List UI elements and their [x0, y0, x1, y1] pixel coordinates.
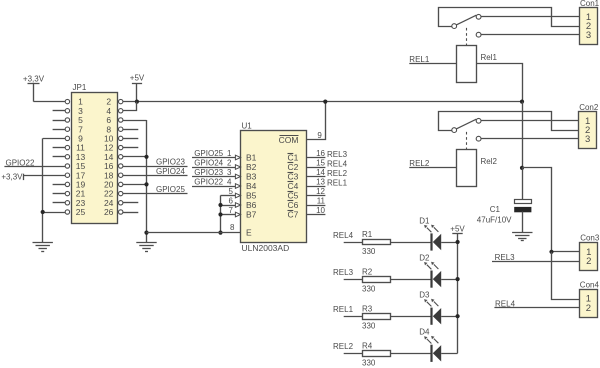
relay coil Rel1	[457, 46, 477, 83]
svg-text:15: 15	[316, 159, 325, 168]
connector JP1 body	[72, 93, 118, 224]
switch NC contact Rel1	[476, 14, 481, 19]
D2 label	[419, 254, 430, 263]
wire stub JP1 pin 7	[53, 129, 66, 131]
U1 enable label E	[246, 228, 252, 238]
wire D4 to +5V rail	[441, 353, 457, 355]
wire E pin 8	[147, 223, 241, 232]
relay coil Rel2	[457, 150, 477, 187]
net label GPIO24 / wire U1 pin 2	[192, 158, 241, 169]
svg-text:GPIO25: GPIO25	[156, 185, 185, 194]
wire REL3 to R2	[344, 279, 363, 281]
svg-text:9: 9	[317, 131, 322, 140]
net label REL3 / wire to Con3 pin2	[492, 253, 580, 262]
junction LED rail row 2	[456, 277, 460, 281]
svg-text:D1: D1	[419, 216, 430, 225]
wire REL1 to R3	[344, 316, 363, 318]
U1 input labels B1-B7	[246, 153, 257, 220]
R1 label	[362, 230, 373, 239]
switch NO contact Rel2	[476, 136, 481, 141]
actuation dashed link Rel1	[466, 28, 468, 46]
LED D1	[424, 225, 441, 251]
wire stub JP1 pin 3	[53, 110, 66, 112]
wire stub JP1 pin 13	[53, 156, 66, 158]
net label REL2 row 4	[333, 342, 354, 351]
svg-text:Rel2: Rel2	[481, 157, 498, 166]
svg-text:330: 330	[362, 359, 376, 368]
ground right of JP1	[136, 243, 156, 252]
wire U1 output pin 15 net REL4	[307, 159, 348, 169]
svg-text:6: 6	[229, 196, 234, 205]
wire stub JP1 pin 26	[123, 212, 138, 214]
wire D2 to +5V rail	[441, 279, 457, 281]
wire C1 to ground	[522, 212, 524, 233]
wire stub JP1 pin 19	[53, 184, 66, 186]
wire JP1 pin6 to ground rail	[123, 120, 147, 122]
junction LED rail row 1	[456, 240, 460, 244]
svg-text:REL1: REL1	[409, 55, 430, 64]
actuation dashed link Rel2	[466, 132, 468, 150]
svg-text:2: 2	[586, 256, 591, 267]
svg-text:REL3: REL3	[327, 150, 348, 159]
svg-text:5: 5	[229, 187, 234, 196]
wire stub JP1 pin 5	[53, 120, 66, 122]
wire +5V rail	[123, 101, 522, 103]
R4 value 330	[362, 359, 376, 368]
R3 value 330	[362, 321, 376, 330]
junction Rel2 coil node	[520, 166, 524, 170]
svg-text:3: 3	[586, 30, 591, 41]
wire Rel2 coil to +5V rail	[522, 102, 524, 168]
net label GPIO23 / wire pin16	[123, 158, 188, 167]
junction ground rail to E wire	[144, 231, 148, 235]
Con2 label	[579, 103, 599, 112]
svg-text:C6: C6	[288, 200, 299, 210]
wire stub JP1 pin 21	[53, 193, 66, 195]
svg-text:D2: D2	[419, 254, 430, 263]
R3 label	[362, 304, 373, 313]
switch common contact Rel1	[452, 24, 457, 29]
wire Rel1 common to Con1 pin 2	[439, 8, 580, 27]
power +5V symbol	[130, 74, 145, 102]
wire REL4 to R1	[344, 242, 363, 244]
wire U1 pin6	[221, 196, 241, 207]
wire stub JP1 pin 11	[53, 147, 66, 149]
svg-text:GPIO23: GPIO23	[156, 158, 185, 167]
R2 label	[362, 267, 373, 276]
connector Con4 body	[580, 290, 598, 318]
Con3 pin numbers	[586, 247, 591, 267]
wire NO contact to Con2 pin 3	[481, 138, 579, 140]
svg-text:3: 3	[585, 134, 590, 145]
svg-text:B6: B6	[246, 200, 257, 210]
wire R4 to D4	[390, 353, 430, 355]
connector Con1 body	[580, 8, 598, 45]
svg-text:25: 25	[76, 207, 86, 217]
junction COM to +5V rail	[323, 100, 327, 104]
net label REL3 row 2	[333, 268, 354, 277]
svg-text:U1: U1	[242, 122, 253, 131]
Con1 pin numbers	[586, 12, 591, 41]
svg-text:12: 12	[316, 187, 325, 196]
capacitor C1 top plate	[515, 200, 532, 204]
wire U1 pin7	[221, 206, 241, 217]
wire U1 pin5	[221, 187, 241, 198]
Rel1 name label	[481, 53, 498, 62]
net label REL4 row 1	[333, 231, 354, 240]
junction LED rail row 3	[456, 314, 460, 318]
svg-text:C2: C2	[288, 162, 299, 172]
svg-text:B5: B5	[246, 191, 257, 201]
svg-text:330: 330	[362, 247, 376, 256]
wire JP1 pin1 to +3,3V	[34, 101, 66, 103]
wire R3 to D3	[390, 316, 430, 318]
Con1 label	[580, 0, 600, 8]
junction pin25 ground	[41, 210, 45, 214]
switch armature Rel2	[456, 119, 476, 129]
svg-text:Con4: Con4	[580, 281, 600, 290]
switch NC contact Rel2	[476, 118, 481, 123]
svg-text:330: 330	[362, 321, 376, 330]
net label GPIO25 / wire U1 pin 1	[192, 149, 241, 160]
wire JP1 pin14 to ground rail	[123, 156, 147, 158]
svg-text:REL1: REL1	[333, 305, 354, 314]
connector Con3 body	[580, 243, 598, 271]
wire Rel1 coil to +5V rail	[476, 64, 522, 102]
net label GPIO23 / wire U1 pin 3	[192, 168, 241, 179]
wire JP1 pin20 to ground rail	[123, 184, 147, 186]
svg-text:7: 7	[229, 206, 234, 215]
svg-text:D3: D3	[419, 291, 430, 300]
svg-text:C4: C4	[288, 181, 299, 191]
wire branch to Con4 pin1	[552, 252, 580, 300]
svg-text:B3: B3	[246, 172, 257, 182]
svg-text:REL4: REL4	[327, 159, 348, 168]
switch common contact Rel2	[452, 128, 457, 133]
LED D3	[424, 299, 441, 325]
Rel2 name label	[481, 157, 498, 166]
Con2 pin numbers	[585, 116, 590, 145]
U1 value ULN2003AD	[242, 243, 290, 253]
R4 label	[362, 342, 373, 351]
svg-text:+5V: +5V	[450, 225, 465, 234]
svg-text:+5V: +5V	[130, 74, 145, 83]
net label REL1 / wire to coil	[409, 55, 457, 64]
wire +5V LED rail	[457, 242, 459, 353]
wire REL2 to R4	[344, 353, 363, 355]
svg-text:8: 8	[230, 223, 235, 232]
wire U1 output pin 10	[307, 206, 326, 215]
svg-text:REL3: REL3	[333, 268, 354, 277]
wire U1 output pin 11	[307, 197, 326, 206]
op-amp driver U1 body	[241, 131, 307, 243]
wire NC contact to Con2 pin 1	[481, 120, 579, 122]
ground left	[33, 243, 53, 252]
svg-text:2: 2	[227, 158, 232, 167]
wire unused-input bus	[220, 196, 222, 233]
svg-text:C1: C1	[490, 205, 501, 214]
svg-text:R2: R2	[362, 267, 373, 276]
svg-text:3: 3	[227, 168, 232, 177]
switch armature Rel1	[456, 15, 476, 25]
resistor R4	[363, 351, 391, 357]
Con4 label	[580, 281, 600, 290]
JP1 label	[73, 83, 87, 92]
LED D4	[424, 336, 441, 362]
junction Rel1 coil rail	[520, 100, 524, 104]
junction pin2 +5V	[135, 100, 139, 104]
net label REL4 / wire to Con4 pin2	[494, 300, 579, 309]
D1 label	[419, 216, 430, 225]
wire U1 output pin 14 net REL2	[307, 168, 348, 178]
Con3 label	[580, 234, 600, 243]
U1 pin COM label	[279, 135, 299, 145]
wire stub JP1 pin 12	[123, 147, 138, 149]
junction Con3 branch	[549, 250, 553, 254]
svg-text:Con1: Con1	[580, 0, 600, 8]
svg-text:Rel1: Rel1	[481, 53, 498, 62]
D4 label	[419, 328, 430, 337]
svg-text:REL2: REL2	[333, 342, 354, 351]
svg-text:B1: B1	[246, 153, 257, 163]
power +3,3V symbol	[23, 74, 45, 101]
wire Rel2 common to Con2 pin 2	[439, 112, 579, 131]
wire U1 output pin 13 net REL1	[307, 178, 348, 188]
JP1 pin numbers	[76, 97, 114, 217]
junction pin7 bus	[218, 212, 222, 216]
svg-text:E: E	[246, 228, 252, 238]
svg-text:COM: COM	[279, 135, 299, 145]
svg-text:47uF/10V: 47uF/10V	[477, 215, 512, 224]
wire R2 to D2	[390, 279, 430, 281]
net label GPIO25 / wire pin22	[123, 185, 188, 194]
resistor R3	[363, 314, 391, 320]
svg-text:+3,3V: +3,3V	[1, 173, 23, 182]
wire U1 output pin 12	[307, 187, 326, 196]
wire stub JP1 pin 10	[123, 138, 138, 140]
svg-text:REL2: REL2	[327, 169, 348, 178]
junction pin20 ground	[144, 182, 148, 186]
svg-text:13: 13	[316, 178, 325, 187]
connector Con2 body	[579, 112, 597, 149]
wire U1 output pin 16 net REL3	[307, 149, 348, 159]
wire stub JP1 pin 23	[53, 202, 66, 204]
JP1 pin circles	[65, 99, 123, 214]
wire stub JP1 pin 8	[123, 129, 138, 131]
power +5V symbol LED rail	[450, 225, 465, 242]
capacitor C1 bottom plate	[514, 207, 531, 212]
svg-text:GPIO24: GPIO24	[194, 158, 223, 167]
LED D2	[424, 262, 441, 288]
svg-text:Con3: Con3	[580, 234, 600, 243]
U1 label	[242, 122, 253, 131]
svg-text:JP1: JP1	[73, 83, 87, 92]
svg-text:GPIO23: GPIO23	[194, 168, 223, 177]
svg-text:16: 16	[316, 149, 325, 158]
wire Rel2 node to Con3 pin1	[522, 168, 580, 252]
svg-text:2: 2	[586, 303, 591, 314]
svg-text:R4: R4	[362, 342, 373, 351]
svg-text:Con2: Con2	[579, 103, 599, 112]
wire R1 to D1	[390, 242, 430, 244]
svg-text:11: 11	[317, 197, 326, 206]
net label GPIO22 / wire to pin15	[4, 158, 65, 167]
svg-text:GPIO24: GPIO24	[156, 167, 185, 176]
wire JP1 pin25 to ground rail	[43, 212, 65, 214]
wire NO contact to Con1 pin 3	[481, 34, 580, 36]
C1 value 47uF/10V	[477, 215, 512, 224]
net label REL1 row 3	[333, 305, 354, 314]
wire JP1 pin4 to +5V	[123, 102, 137, 111]
wire Rel2 node to C1	[522, 168, 524, 200]
C1 label	[490, 205, 501, 214]
svg-text:330: 330	[362, 284, 376, 293]
net label GPIO22 / wire U1 pin 4	[192, 177, 241, 188]
wire D3 to +5V rail	[441, 316, 457, 318]
wire JP1 pin9 to ground rail	[43, 138, 65, 140]
junction pin14 ground	[144, 155, 148, 159]
wire right ground rail	[146, 120, 148, 243]
svg-text:REL4: REL4	[333, 231, 354, 240]
net label REL2 / wire to coil	[409, 159, 457, 168]
svg-text:1: 1	[227, 149, 232, 158]
net label +3,3V pin17	[1, 173, 65, 182]
resistor R2	[363, 277, 391, 283]
ground C1	[512, 233, 532, 241]
wire stub JP1 pin 24	[123, 202, 138, 204]
switch NO contact Rel1	[476, 32, 481, 37]
R2 value 330	[362, 284, 376, 293]
svg-text:D4: D4	[419, 328, 430, 337]
resistor R1	[363, 240, 391, 245]
wire NC contact to Con1 pin 1	[481, 16, 580, 18]
net label GPIO24 / wire pin18	[123, 167, 188, 176]
svg-text:10: 10	[316, 206, 325, 215]
svg-text:ULN2003AD: ULN2003AD	[242, 243, 290, 253]
svg-text:B4: B4	[246, 181, 257, 191]
svg-text:R3: R3	[362, 304, 373, 313]
junction pin6 bus	[218, 203, 222, 207]
svg-text:26: 26	[104, 207, 114, 217]
svg-text:4: 4	[227, 177, 232, 186]
svg-text:B2: B2	[246, 162, 257, 172]
svg-text:REL1: REL1	[327, 178, 348, 187]
wire D1 to +5V rail	[441, 242, 457, 244]
D3 label	[419, 291, 430, 300]
wire left ground rail	[42, 138, 44, 242]
svg-text:R1: R1	[362, 230, 373, 239]
svg-text:GPIO25: GPIO25	[194, 149, 223, 158]
svg-text:GPIO22: GPIO22	[194, 177, 223, 186]
svg-text:14: 14	[316, 168, 325, 177]
svg-text:REL2: REL2	[409, 159, 430, 168]
svg-text:+3,3V: +3,3V	[23, 74, 45, 83]
Con4 pin numbers	[586, 294, 591, 314]
R1 value 330	[362, 247, 376, 256]
wire COM pin 9	[307, 102, 326, 140]
U1 output labels C1-C7 with overline	[288, 153, 299, 220]
junction bus to E wire	[218, 231, 222, 235]
svg-text:B7: B7	[246, 210, 257, 220]
